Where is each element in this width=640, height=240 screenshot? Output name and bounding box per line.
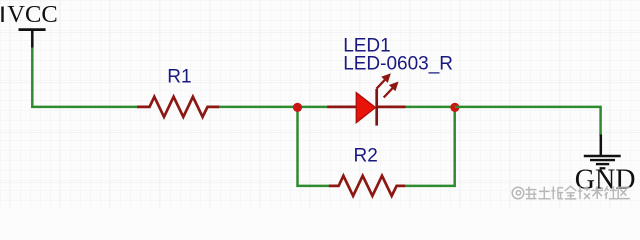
svg-text:R2: R2 (354, 146, 378, 167)
node B junction dot (450, 103, 459, 112)
wire node A down to R2 (298, 107, 330, 186)
金 (565, 186, 577, 199)
wire node B to GND (455, 107, 601, 136)
术 (591, 186, 603, 199)
svg-text:LED-0603_R: LED-0603_R (343, 53, 453, 74)
emission arrow 2 (384, 82, 399, 98)
wire R1 to node A (219, 106, 298, 109)
掘 (551, 186, 563, 199)
svg-text:VCC: VCC (7, 1, 57, 28)
wire VCC to R1 (32, 48, 138, 107)
watermark logo @ (512, 187, 524, 199)
node A junction dot (293, 103, 302, 112)
watermark text (approx CJK strokes) (526, 186, 630, 199)
区 (618, 187, 630, 198)
ground symbol (575, 135, 636, 196)
社 (605, 186, 618, 199)
cropped glyph artifact at left edge (1, 7, 3, 23)
wire R2 up to node B (405, 107, 455, 186)
技 (578, 186, 590, 199)
wire LED to node B (406, 106, 456, 109)
稀 (526, 187, 537, 200)
power flag VCC (7, 1, 57, 49)
resistor R2 (329, 146, 406, 196)
resistor R1 (137, 66, 219, 117)
wire node A to LED (298, 106, 329, 109)
svg-text:R1: R1 (167, 66, 191, 87)
emission arrow 1 (376, 73, 391, 89)
土 (538, 187, 550, 199)
LED LED1 (327, 35, 453, 125)
